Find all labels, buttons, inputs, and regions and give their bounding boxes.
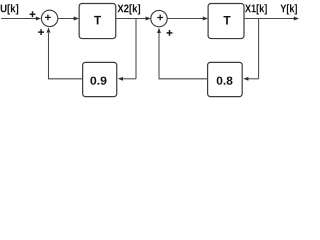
wire feedback into block G2 right side — [248, 78, 259, 80]
summer S2 (adder circle) — [151, 10, 167, 26]
wire summer S2 to block T2 — [167, 18, 204, 20]
wire node X1 drop to feedback — [258, 19, 260, 79]
wire block T2 to Y[k] output — [245, 18, 294, 20]
block T1 (delay) — [79, 4, 116, 39]
node U[k] input label — [1, 4, 19, 14]
block G1 (gain 0.9) — [83, 62, 117, 96]
wire block G2 out to summer S2 — [159, 33, 208, 79]
node X1[k] label — [245, 4, 267, 14]
plus sign at S1 input from U[k] — [30, 11, 36, 17]
plus sign at S2 feedback input — [167, 30, 173, 36]
node Y[k] output label — [281, 4, 297, 14]
wire U[k] input to summer S1 — [1, 18, 36, 20]
wire block G1 out to summer S1 — [49, 33, 83, 79]
block T2 (delay) — [208, 4, 244, 39]
block G2 (gain 0.8) — [208, 62, 243, 96]
wire node X2 drop to feedback — [135, 19, 137, 79]
plus sign at S1 feedback input — [38, 29, 44, 35]
wire summer S1 to block T1 — [58, 18, 74, 20]
summer S1 (adder circle) — [41, 10, 57, 26]
wire block T1 to summer S2 — [116, 18, 146, 20]
wire feedback into block G1 right side — [123, 78, 136, 80]
node X2[k] label — [117, 4, 140, 14]
